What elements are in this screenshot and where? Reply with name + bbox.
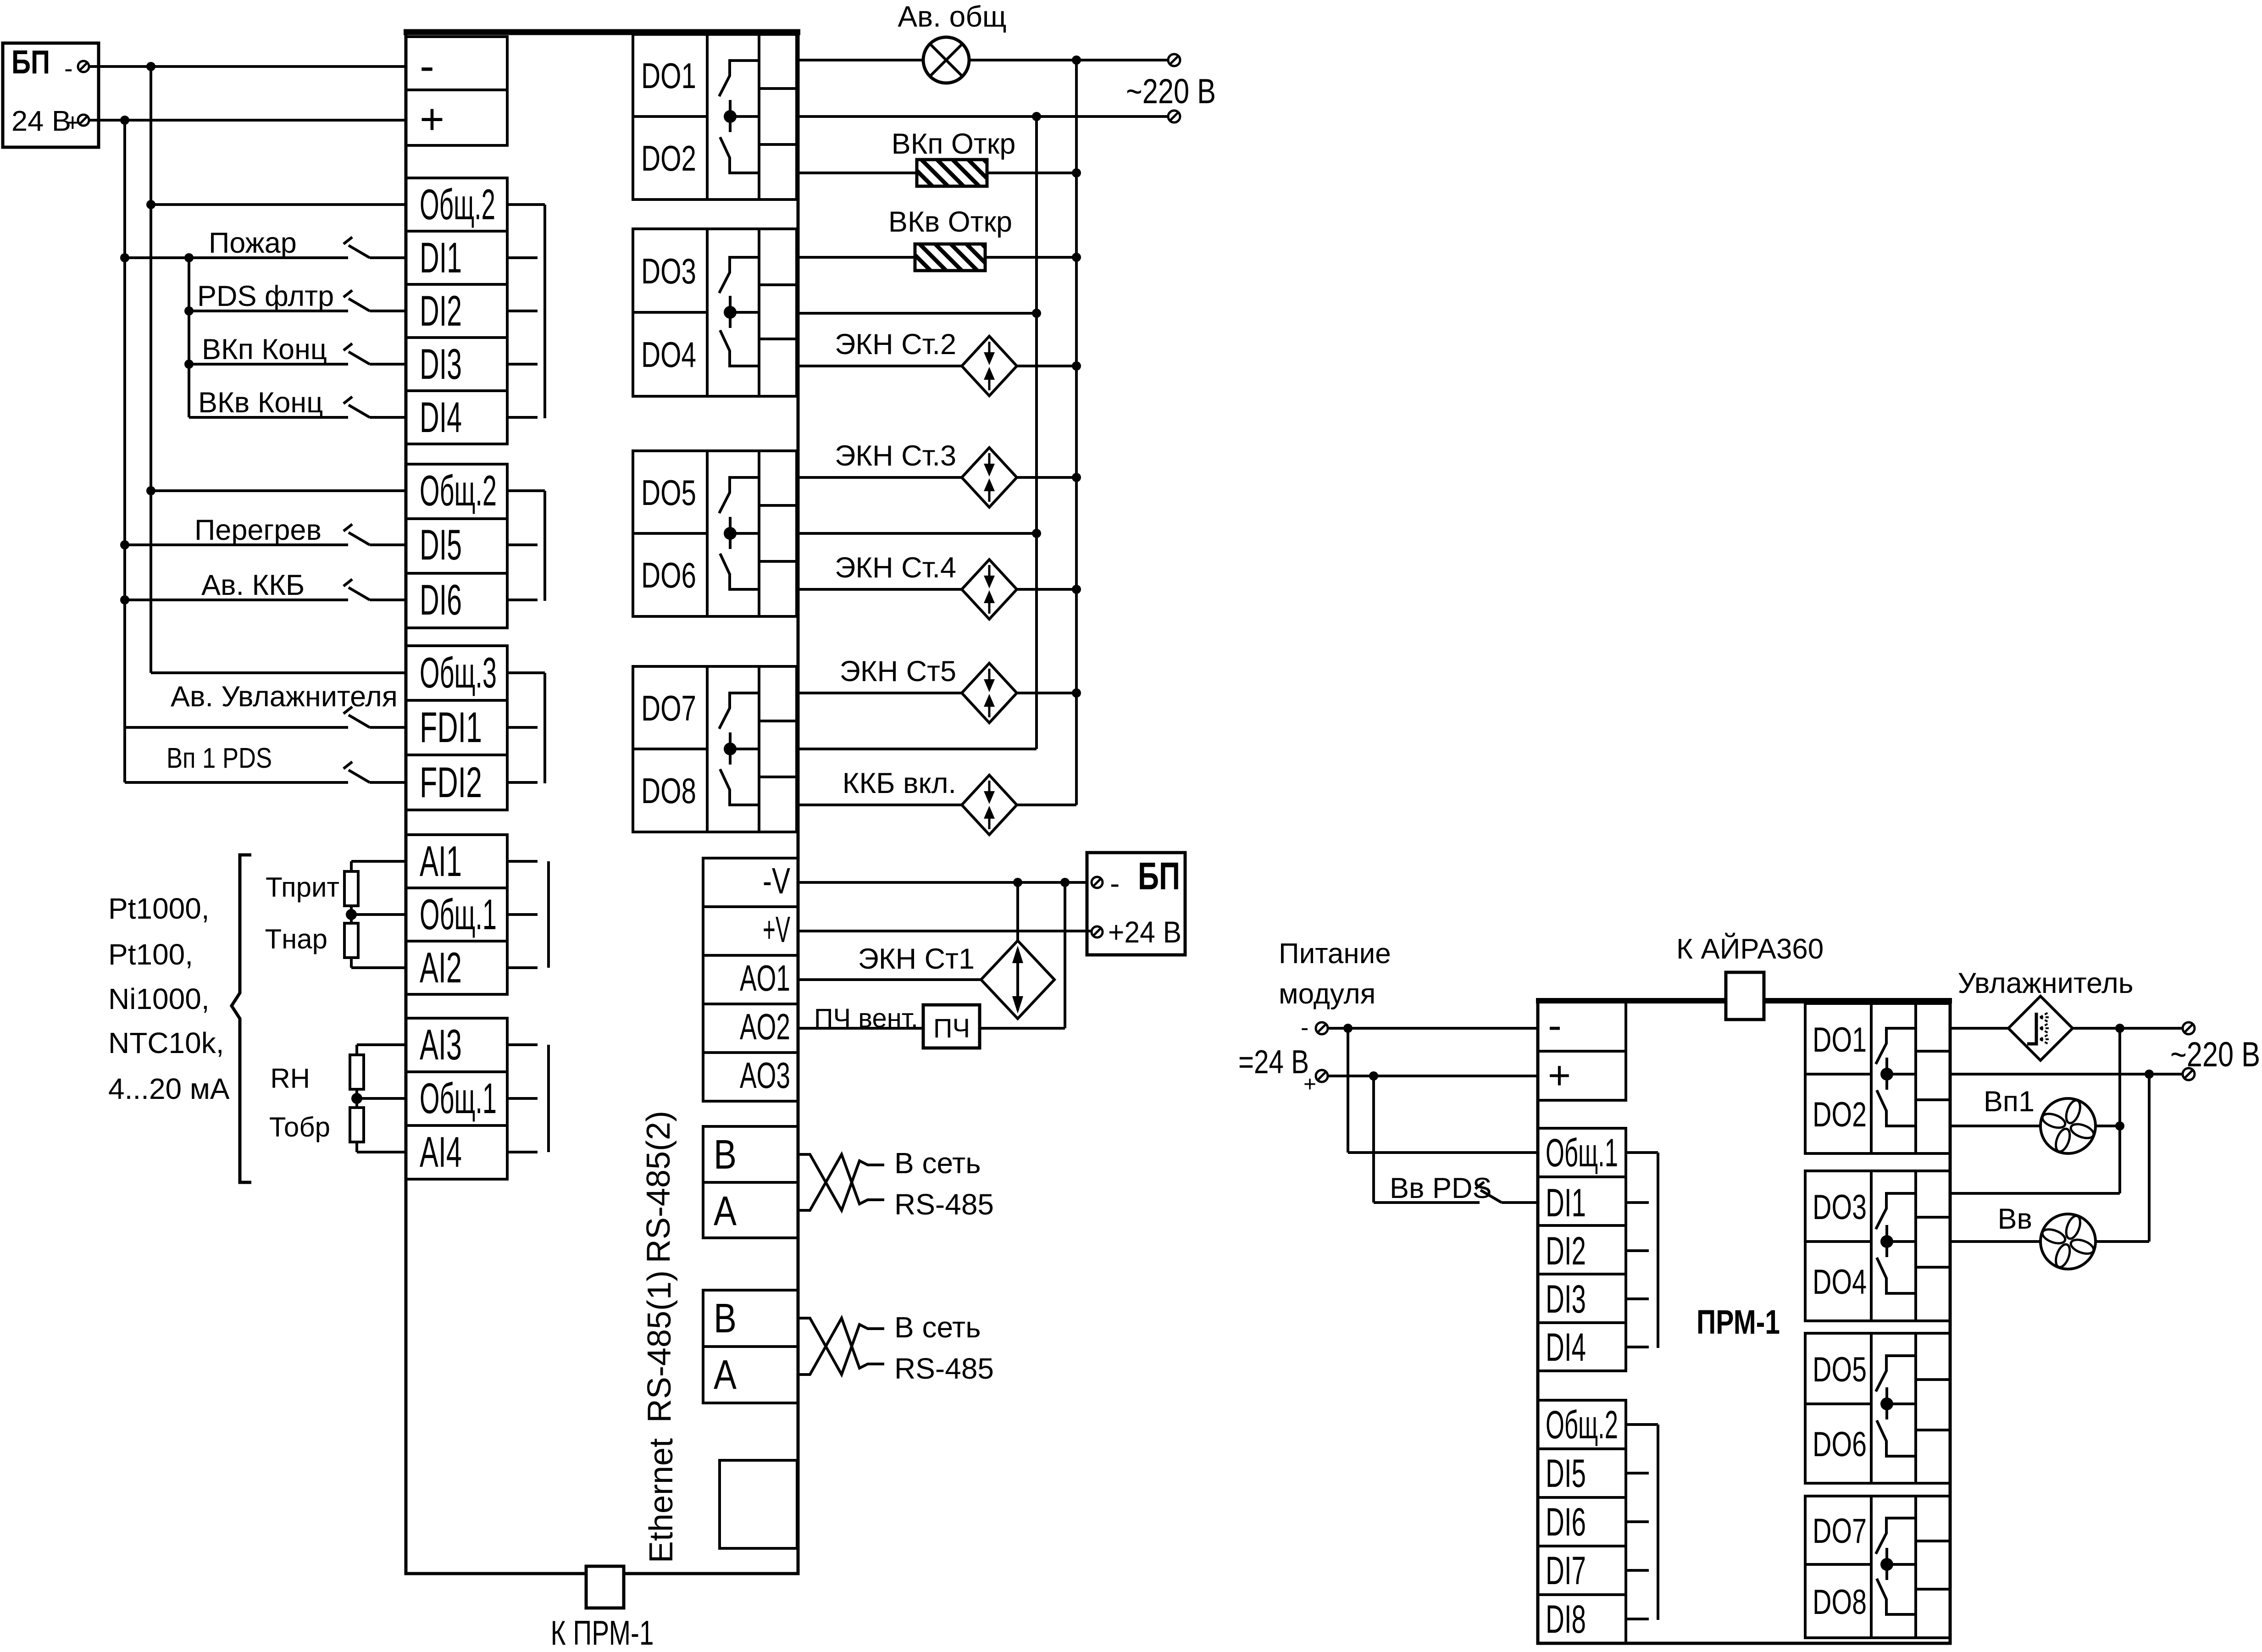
svg-text:24 В: 24 В	[11, 105, 71, 137]
junction Ав.ККБ wire	[120, 595, 129, 604]
switch Ав. ККБ contact -> DI6	[344, 579, 352, 586]
junction phase bus	[2115, 1024, 2124, 1033]
svg-text:Тприт: Тприт	[266, 872, 339, 903]
frequency drive ПЧ box	[923, 1005, 980, 1048]
wire DO7/DO8 common to COM bus (bus end)	[798, 748, 1037, 750]
heater stage ЭКН Ст.4	[962, 560, 1017, 619]
svg-text:DO3: DO3	[1813, 1188, 1867, 1227]
svg-text:DO4: DO4	[1813, 1263, 1867, 1302]
svg-text:К ПРМ-1: К ПРМ-1	[551, 1613, 654, 1652]
wire to Общ.3 terminal	[151, 671, 406, 674]
svg-text:ПЧ: ПЧ	[933, 1014, 970, 1043]
ПРМ relay block DO3/DO4	[1805, 1171, 1950, 1321]
svg-text:Тобр: Тобр	[269, 1112, 330, 1142]
svg-text:DO6: DO6	[1813, 1425, 1867, 1464]
svg-text:DI3: DI3	[1546, 1277, 1586, 1321]
heater stage ЭКН Ст.2	[962, 336, 1017, 396]
relay output block DO3/DO4	[633, 229, 797, 396]
svg-text:-: -	[64, 54, 73, 83]
wire ККБ вкл. to load bus (bus end)	[1017, 804, 1076, 806]
svg-text:AO3: AO3	[740, 1055, 790, 1096]
svg-text:DI2: DI2	[420, 287, 462, 335]
svg-text:ВКп Откр: ВКп Откр	[892, 128, 1016, 160]
svg-text:RH: RH	[270, 1063, 310, 1094]
svg-text:ЭКН Ст1: ЭКН Ст1	[858, 943, 975, 975]
svg-text:AO1: AO1	[740, 958, 790, 998]
wire lamp to ~220V terminal L	[969, 59, 1168, 61]
switch Вп 1 PDS contact -> FDI2	[344, 762, 352, 769]
wire AO2 to ПЧ (frequency drive)	[798, 1027, 923, 1030]
junction	[1072, 585, 1081, 594]
svg-text:DI4: DI4	[420, 393, 462, 441]
wire Перегрев to DI5 switch	[125, 543, 348, 546]
svg-text:ВКп Конц: ВКп Конц	[202, 333, 327, 366]
svg-text:+24 В: +24 В	[1108, 915, 1181, 949]
wire Увлажнитель to ~220V terminal	[2073, 1027, 2183, 1030]
wire fan Вп1 to phase bus	[2096, 1125, 2120, 1127]
svg-text:ЭКН Ст5: ЭКН Ст5	[840, 655, 956, 687]
switch ВКп Конц contact -> DI3	[344, 344, 352, 350]
svg-text:DO4: DO4	[641, 334, 696, 375]
junction ПЧ feed	[1060, 878, 1070, 887]
switch Вв PDS contact -> DI1	[1475, 1182, 1484, 1189]
БП +24V terminal	[1092, 926, 1103, 937]
svg-text:+: +	[1303, 1072, 1316, 1097]
svg-text:ЭКН Ст.4: ЭКН Ст.4	[835, 552, 956, 584]
svg-text:Ав. ККБ: Ав. ККБ	[201, 569, 305, 601]
junction	[1032, 309, 1041, 318]
svg-text:DO7: DO7	[641, 688, 696, 728]
svg-text:DI1: DI1	[420, 233, 462, 282]
terminal group AI3 / Общ.1 / AI4	[406, 1018, 507, 1179]
svg-text:DI7: DI7	[1546, 1549, 1586, 1593]
junction neutral bus	[2145, 1070, 2154, 1079]
svg-text:AI1: AI1	[420, 837, 462, 885]
junction	[1072, 688, 1081, 698]
wire ЭКН Ст.2 to load bus	[1017, 365, 1076, 367]
wire AO1 to ЭКН Ст1	[798, 978, 981, 981]
svg-text:A: A	[714, 1352, 737, 1398]
terminal block -V +V AO1 AO2 AO3	[703, 858, 798, 1101]
DI1-DI4 internal common bracket	[507, 203, 545, 206]
svg-text:БП: БП	[1138, 854, 1180, 898]
svg-text:-: -	[1301, 1014, 1308, 1041]
~220V screw terminal (bottom)	[1168, 111, 1180, 122]
terminal "+" power input	[406, 90, 507, 145]
wire DO2 to ВКп Откр actuator	[798, 172, 917, 174]
~220V screw terminal (top)	[1168, 54, 1180, 66]
svg-text:RS-485(1): RS-485(1)	[641, 1270, 678, 1423]
wire ВКп Конц to DI3 switch	[189, 363, 348, 366]
ПРМ terminal group Общ.2 / DI5-DI8	[1538, 1400, 1626, 1643]
wire minus to ПРМ "-" terminal	[1328, 1027, 1538, 1030]
svg-text:DO1: DO1	[1813, 1020, 1867, 1059]
wire DO5 to ЭКН Ст.3	[798, 476, 962, 479]
svg-text:Ав. Увлажнителя: Ав. Увлажнителя	[171, 681, 398, 713]
svg-text:DI5: DI5	[420, 521, 462, 569]
junction COM bus	[1032, 112, 1041, 121]
humidifier icon	[2027, 1013, 2036, 1044]
vertical wire ПЧ to -V junction	[1064, 882, 1066, 1028]
svg-text:Питание: Питание	[1279, 938, 1391, 970]
svg-text:Вв PDS: Вв PDS	[1390, 1172, 1492, 1204]
switch Пожар (fire) contact -> DI1	[344, 237, 352, 244]
wire DO3 to ВКв Откр actuator	[798, 256, 915, 259]
svg-text:Pt1000,: Pt1000,	[108, 892, 210, 925]
wire БП minus to controller "-" terminal	[89, 65, 406, 68]
junction	[1072, 473, 1081, 482]
svg-text:Ni1000,: Ni1000,	[108, 982, 210, 1015]
svg-text:DI4: DI4	[1546, 1325, 1586, 1369]
lamp Ав. общ (signal lamp)	[923, 37, 969, 83]
wire ПЧ to -V rail	[980, 1027, 1065, 1030]
FDI internal common bracket	[507, 671, 545, 674]
junction	[2115, 1121, 2124, 1131]
junction Перегрев wire	[120, 540, 129, 549]
fan Вв (exhaust fan)	[2040, 1214, 2096, 1269]
ПРМ terminal "-"	[1538, 1002, 1626, 1051]
svg-text:ПЧ вент.: ПЧ вент.	[814, 1003, 918, 1033]
~220V screw terminal (ПРМ bottom)	[2183, 1068, 2195, 1080]
svg-text:ЭКН Ст.2: ЭКН Ст.2	[835, 328, 956, 360]
svg-text:DI8: DI8	[1546, 1597, 1586, 1641]
svg-text:NTC10k,: NTC10k,	[108, 1026, 224, 1059]
svg-text:-: -	[1548, 1003, 1562, 1048]
svg-text:+V: +V	[763, 909, 790, 950]
power supply unit БП (24 V) box	[3, 43, 99, 147]
svg-text:AI4: AI4	[420, 1128, 462, 1176]
svg-text:ВКв Откр: ВКв Откр	[888, 206, 1012, 238]
svg-text:~220 В: ~220 В	[1126, 72, 1216, 111]
wire DO2 to fan Вп1	[1950, 1125, 2040, 1127]
wire PDS флтр to DI2 switch	[189, 310, 348, 312]
junction to Общ.2 (upper)	[146, 200, 155, 209]
svg-text:Общ.1: Общ.1	[1546, 1131, 1618, 1175]
module power plus terminal	[1316, 1070, 1328, 1082]
ПРМ relay block DO5/DO6	[1805, 1333, 1950, 1483]
svg-text:К АЙРА360: К АЙРА360	[1676, 933, 1824, 965]
svg-text:DI2: DI2	[1546, 1229, 1586, 1273]
fan Вп1 (supply fan)	[2040, 1098, 2096, 1153]
svg-text:ПРМ-1: ПРМ-1	[1696, 1303, 1780, 1341]
junction	[1369, 1071, 1378, 1081]
svg-text:RS-485(2): RS-485(2)	[640, 1111, 677, 1263]
branch rail for DI2-DI4 switches	[188, 258, 190, 417]
junction ВКп Конц wire	[184, 360, 194, 369]
junction ЭКН Ст1 feed	[1013, 878, 1022, 887]
svg-text:-: -	[1110, 867, 1120, 900]
contactor ККБ вкл.	[962, 775, 1017, 835]
svg-text:-V: -V	[763, 860, 790, 901]
БП minus screw terminal	[78, 61, 89, 72]
wire ВКп Откр to load bus	[987, 172, 1076, 174]
label К ПРМ-1 connector square	[586, 1566, 624, 1608]
wire to Общ.1 terminal	[357, 1097, 406, 1100]
relay output block DO5/DO6	[633, 451, 797, 616]
twisted pair to RS-485(2) network	[798, 1154, 884, 1210]
ПРМ-1 module outline	[1538, 1001, 1950, 1643]
svg-text:Тнар: Тнар	[265, 924, 327, 954]
junction	[1072, 168, 1081, 177]
heater stage ЭКН Ст.3	[962, 448, 1017, 507]
AI3-AI4 internal bracket	[547, 1045, 550, 1152]
wire Тобр to AI4	[357, 1151, 406, 1153]
svg-text:DI6: DI6	[420, 576, 462, 624]
wire DO5/DO6 common to COM bus	[798, 532, 1037, 535]
svg-text:Общ.1: Общ.1	[420, 1074, 497, 1122]
wire phase bus to DO3 contact	[1950, 1192, 2120, 1195]
DI5-DI6 internal common bracket	[507, 489, 545, 492]
svg-text:Перегрев: Перегрев	[194, 514, 322, 546]
БП plus screw terminal	[78, 115, 89, 126]
svg-text:FDI1: FDI1	[420, 703, 482, 751]
svg-text:Ав. общ: Ав. общ	[898, 0, 1006, 33]
wire DO4 to ЭКН Ст.2	[798, 365, 962, 367]
terminal "-" power input	[406, 37, 507, 90]
wire to Общ.2 upper terminal	[151, 203, 406, 206]
relay output block DO1/DO2	[633, 34, 797, 200]
wire DO3/DO4 common to COM bus	[798, 312, 1037, 315]
junction -24V rail / Общ.2 drop	[146, 62, 155, 71]
ПРМ relay block DO1/DO2	[1805, 1003, 1950, 1153]
junction	[1072, 361, 1081, 371]
wire Тнар to AI2	[351, 966, 406, 969]
sensor types brace	[232, 855, 251, 1182]
terminal group Общ.2 / DI1-DI4	[406, 178, 507, 444]
svg-text:Общ.1: Общ.1	[420, 890, 497, 938]
svg-text:Общ.2: Общ.2	[420, 466, 497, 515]
terminal block RS-485(2) B/A	[703, 1126, 798, 1238]
resistor sensor Тнар	[344, 923, 358, 958]
terminal block RS-485(1) B/A	[703, 1290, 798, 1403]
wire ЭКН Ст1 to -V rail	[1016, 882, 1019, 941]
svg-text:Ethernet: Ethernet	[643, 1438, 680, 1563]
twisted pair to RS-485(1) network	[798, 1318, 884, 1375]
wire Пожар to DI1 switch	[125, 256, 348, 259]
svg-text:DO5: DO5	[1813, 1350, 1867, 1389]
switch ВКв Конц contact -> DI4	[344, 397, 352, 404]
terminal group Общ.3 / FDI1-FDI2	[406, 646, 507, 810]
svg-text:DO8: DO8	[1813, 1583, 1867, 1622]
junction sensors to Общ.1	[346, 909, 357, 920]
svg-text:Вп 1 PDS: Вп 1 PDS	[166, 743, 272, 774]
svg-text:DI5: DI5	[1546, 1452, 1586, 1496]
junction	[1032, 529, 1041, 538]
wire ЭКН Ст5 to load bus	[1017, 692, 1076, 694]
svg-text:B: B	[714, 1296, 737, 1342]
svg-text:FDI2: FDI2	[420, 758, 482, 806]
terminal group Общ.2 / DI5-DI6	[406, 464, 507, 628]
plus drop to Вв PDS switch	[1372, 1076, 1375, 1203]
junction DI2-DI4 branch	[184, 253, 194, 262]
junction to Общ.2 (lower)	[146, 486, 155, 495]
svg-text:DO8: DO8	[641, 771, 696, 811]
wire Ав. Увлажнителя to FDI1 switch	[125, 726, 348, 729]
wire Вп 1 PDS to FDI2 switch	[125, 781, 348, 784]
svg-text:DI1: DI1	[1546, 1181, 1586, 1225]
heater stage ЭКН Ст1 (analog)	[981, 941, 1054, 1019]
wire ВКв Конц to DI4 switch	[189, 416, 348, 419]
resistor sensor Тобр	[350, 1108, 364, 1142]
+24V drop rail feeding input switches	[123, 120, 126, 782]
connector К АЙРА360 square	[1726, 972, 1764, 1020]
actuator ВКп Откр (damper drive)	[917, 160, 987, 186]
svg-text:Увлажнитель: Увлажнитель	[1957, 967, 2133, 999]
svg-text:Пожар: Пожар	[209, 227, 297, 259]
~220V screw terminal (ПРМ top)	[2183, 1022, 2195, 1034]
wire DO1/DO2 common to ~220V terminal N	[798, 115, 1168, 118]
svg-text:DO2: DO2	[1813, 1095, 1867, 1134]
wire Ав.ККБ to DI6 switch	[125, 599, 348, 601]
svg-text:ЭКН Ст.3: ЭКН Ст.3	[835, 440, 956, 472]
svg-text:В сеть: В сеть	[894, 1311, 981, 1344]
Ethernet port box	[720, 1460, 797, 1548]
junction sensors to Общ.1	[351, 1093, 362, 1104]
svg-text:~220 В: ~220 В	[2170, 1035, 2260, 1074]
svg-text:DI6: DI6	[1546, 1500, 1586, 1544]
wire DO3/DO4 common to fan Вв	[1950, 1240, 2040, 1243]
wire -V to БП	[798, 881, 1087, 884]
terminal group AI1 / Общ.1 / AI2	[406, 835, 507, 994]
junction load bus / lamp wire	[1072, 55, 1081, 65]
svg-text:DI3: DI3	[420, 340, 462, 388]
svg-text:DO5: DO5	[641, 472, 696, 513]
svg-text:RS-485: RS-485	[894, 1188, 994, 1221]
svg-text:Вв: Вв	[1998, 1203, 2033, 1235]
wire DO6 to ЭКН Ст.4	[798, 588, 962, 591]
svg-text:DO7: DO7	[1813, 1512, 1867, 1551]
ПРМ relay block DO7/DO8	[1805, 1496, 1950, 1638]
svg-text:БП: БП	[11, 44, 50, 81]
resistor sensor RH	[350, 1055, 364, 1089]
actuator ВКв Откр (damper drive)	[915, 244, 985, 271]
svg-text:DO1: DO1	[641, 55, 696, 96]
svg-text:Общ.2: Общ.2	[1546, 1403, 1618, 1447]
sensor chain Тприт/Тнар on AI1/Общ.1/AI2	[351, 860, 406, 863]
wire DO8 to ККБ вкл.	[798, 804, 962, 806]
svg-text:4...20 мА: 4...20 мА	[108, 1072, 230, 1105]
junction +24V rail / switch-common drop	[120, 116, 129, 125]
svg-text:В сеть: В сеть	[894, 1147, 981, 1180]
switch Перегрев contact -> DI5	[344, 524, 352, 531]
neutral bus vertical	[2148, 1074, 2151, 1242]
svg-text:RS-485: RS-485	[894, 1352, 994, 1385]
БП minus terminal	[1092, 877, 1103, 888]
wire fan Вв to neutral bus	[2096, 1240, 2149, 1243]
load bus vertical (to ~220V phase)	[1075, 60, 1078, 805]
junction Пожар wire	[120, 253, 129, 262]
ПРМ terminal group Общ.1 / DI1-DI4	[1538, 1128, 1626, 1371]
wire БП plus to controller "+" terminal	[89, 119, 406, 122]
svg-text:ВКв Конц: ВКв Конц	[198, 387, 323, 419]
junction	[1343, 1024, 1353, 1033]
svg-text:модуля: модуля	[1279, 978, 1375, 1010]
svg-text:DO2: DO2	[641, 138, 696, 178]
svg-text:DO3: DO3	[641, 251, 696, 291]
svg-text:Общ.2: Общ.2	[420, 180, 495, 228]
switch PDS флтр contact -> DI2	[344, 290, 352, 297]
wire ВКв Откр to load bus	[985, 256, 1076, 259]
-24V drop rail to Общ.2/Общ.3 terminals	[150, 67, 152, 673]
ПРМ terminal "+"	[1538, 1051, 1626, 1100]
svg-text:=24 В: =24 В	[1238, 1044, 1309, 1081]
resistor sensor Тприт	[344, 871, 358, 906]
wire ЭКН Ст.3 to load bus	[1017, 476, 1076, 479]
wire DO1/DO2 common to ~220V N	[1950, 1073, 2183, 1075]
svg-text:-: -	[420, 42, 434, 90]
AI1-AI2 internal bracket	[547, 861, 550, 968]
COM bus vertical (relay commons)	[1035, 116, 1038, 749]
sensor chain RH/Тобр on AI3/Общ.1/AI4	[357, 1043, 406, 1046]
svg-text:AI2: AI2	[420, 943, 462, 992]
phase bus vertical	[2118, 1028, 2121, 1193]
svg-text:B: B	[714, 1132, 737, 1178]
junction	[1072, 253, 1081, 262]
wire DO1 to Увлажнитель	[1950, 1027, 2008, 1030]
controller main block outline	[406, 32, 798, 1574]
svg-text:AI3: AI3	[420, 1020, 462, 1069]
wire to Общ.1 terminal	[351, 913, 406, 916]
junction PDS флтр wire	[184, 306, 194, 316]
svg-text:+: +	[1548, 1053, 1571, 1098]
relay output block DO7/DO8	[633, 666, 797, 832]
wire DO7 to ЭКН Ст5	[798, 692, 962, 694]
svg-text:Вп1: Вп1	[1984, 1086, 2035, 1118]
module power minus terminal	[1316, 1022, 1328, 1034]
power supply unit БП (bottom right) box	[1087, 853, 1185, 955]
svg-text:DO6: DO6	[641, 555, 696, 595]
svg-text:Pt100,: Pt100,	[108, 938, 193, 971]
svg-text:Общ.3: Общ.3	[420, 649, 497, 697]
svg-text:A: A	[714, 1188, 737, 1234]
wire plus to ПРМ "+" terminal	[1328, 1075, 1538, 1077]
ПРМ DI1-DI4 internal bracket	[1626, 1151, 1658, 1154]
minus drop to Общ.1	[1347, 1028, 1349, 1153]
ПРМ DI5-DI8 internal bracket	[1626, 1423, 1658, 1426]
lamp Ав. общ wire from DO1	[798, 59, 923, 61]
switch Ав. Увлажнителя contact -> FDI1	[344, 707, 352, 714]
wire +V to БП	[798, 930, 1092, 932]
svg-text:PDS флтр: PDS флтр	[197, 280, 334, 312]
svg-text:ККБ вкл.: ККБ вкл.	[843, 767, 956, 799]
svg-text:+: +	[420, 95, 444, 143]
wire ЭКН Ст.4 to load bus	[1017, 588, 1076, 591]
heater stage ЭКН Ст5	[962, 663, 1017, 723]
humidifier Увлажнитель	[2008, 996, 2073, 1060]
wire to Общ.2 lower terminal	[151, 489, 406, 492]
svg-text:AO2: AO2	[740, 1006, 790, 1047]
